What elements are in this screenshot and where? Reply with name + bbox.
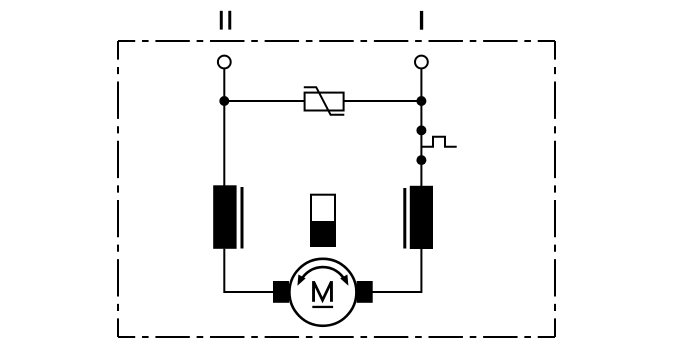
brush (left) (273, 281, 289, 303)
wire: thermistor to right junction (343, 100, 421, 102)
terminal label II (220, 11, 231, 30)
step-function symbol (park-position switching pulse) (421, 137, 456, 147)
wire: left junction to thermistor (224, 100, 305, 102)
motor M housing circle (289, 259, 356, 326)
wire: terminal II down to left choke (223, 69, 225, 186)
node: upper tap on right branch (416, 125, 426, 135)
wire: terminal I down to right choke (420, 69, 422, 187)
node: junction at terminal I branch (416, 96, 426, 106)
node: lower tap on right branch (416, 155, 426, 165)
terminal label I (420, 11, 423, 30)
thermistor (overload protection resistor) (304, 87, 345, 115)
enclosure boundary (dash-dot frame) (118, 41, 555, 337)
choke L2 (right, with core bar) (403, 186, 433, 249)
motor M underline (312, 306, 333, 308)
motor letter M (312, 281, 333, 302)
rotation direction double arrow (297, 267, 348, 286)
wire: right choke down and across to motor brush (372, 249, 421, 292)
node: junction at terminal II branch (219, 96, 229, 106)
terminal II (218, 56, 231, 69)
brush (right) (357, 281, 373, 303)
terminal I (415, 56, 428, 69)
choke L1 (left, with core bar) (213, 185, 243, 249)
permanent magnet (half-filled bar) (310, 195, 336, 247)
wire: left choke down and across to motor brush (224, 249, 274, 292)
